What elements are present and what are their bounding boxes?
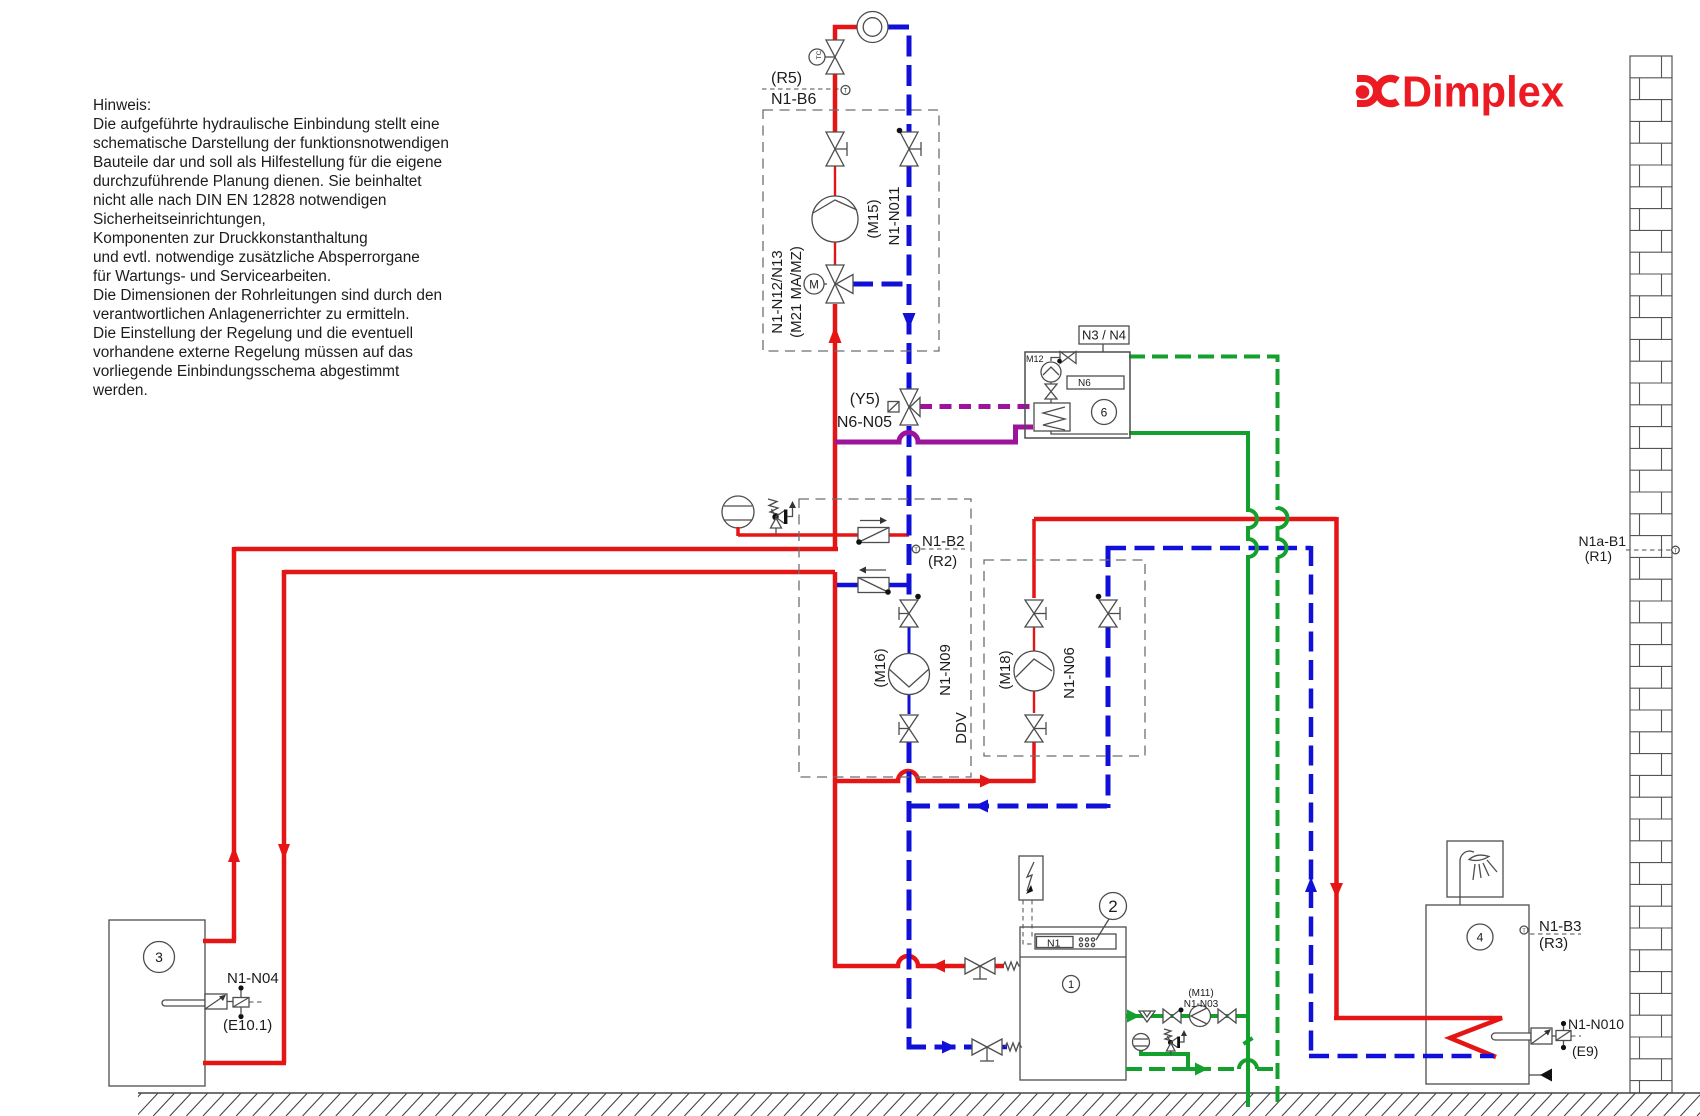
- wire red M18 pump-valve thin: [1033, 690, 1035, 713]
- svg-text:(R2): (R2): [928, 553, 957, 570]
- wire blue top box valve to Y5 valve: [907, 166, 912, 389]
- wire purple solid riser to N6 heat exchanger with bridge: [835, 427, 1033, 442]
- arrow blue up x1311: [1305, 877, 1317, 892]
- safety valve brine: [1164, 1029, 1187, 1055]
- wire blue check stub left: [837, 583, 858, 588]
- control panel N1: [1035, 934, 1116, 949]
- shutoff valve blue at heat pump: [972, 1039, 1002, 1061]
- wire red vertical tank3 top x234: [232, 547, 237, 941]
- dirt filter green line: [1139, 1011, 1155, 1022]
- shutoff valve blue top box: [897, 128, 921, 166]
- svg-text:6: 6: [1101, 406, 1108, 420]
- svg-text:DDV: DDV: [953, 712, 970, 744]
- wire blue thin pump-valve M16: [908, 693, 911, 714]
- svg-text:(M15): (M15): [865, 199, 882, 238]
- svg-text:Dimplex: Dimplex: [1402, 68, 1564, 117]
- svg-text:Die aufgeführte hydraulische E: Die aufgeführte hydraulische Einbindung …: [93, 116, 440, 133]
- wire green solid T stub on return: [1180, 1067, 1196, 1071]
- wire red main riser lower (835, 572-966): [833, 572, 838, 968]
- heat exchanger N6: [1034, 403, 1070, 431]
- shutoff valve above pump M18: [1025, 600, 1046, 627]
- valve in N6 box: [1060, 352, 1076, 364]
- shutoff valve below pump M18: [1025, 715, 1046, 742]
- svg-text:N1-N04: N1-N04: [227, 970, 279, 987]
- wire red tank4 riser x1336: [1334, 517, 1339, 1018]
- wire red M18 valve-pump thin: [1033, 627, 1035, 652]
- dashed enclosure mixer group N1-N09: [799, 499, 971, 777]
- sensor T outdoor N1a-B1 (R1): [1579, 533, 1680, 564]
- junction patch blue riser: [907, 576, 912, 594]
- svg-text:(Y5): (Y5): [850, 391, 880, 408]
- shutoff valve green left: [1163, 1008, 1184, 1024]
- svg-text:(R5): (R5): [771, 70, 802, 87]
- svg-text:N1-N011: N1-N011: [886, 187, 903, 246]
- wire blue DDV branch vertical lower: [1106, 627, 1111, 808]
- svg-text:Hinweis:: Hinweis:: [93, 97, 151, 114]
- wire blue M21 bypass stub: [852, 282, 909, 287]
- safety valve top: [768, 499, 796, 535]
- arrow red down x284: [278, 844, 290, 860]
- wire red horizontal tank3 top to riser y549: [234, 547, 838, 552]
- svg-text:für Wartungs- und Servicearbei: für Wartungs- und Servicearbeiten.: [93, 268, 331, 285]
- sensor T N1-B3 (R3): [1520, 918, 1582, 952]
- electric heater E9 tank4: [1492, 1016, 1625, 1059]
- electric heater E10.1 tank3: [162, 970, 279, 1034]
- pump M16 N1-N09: [872, 644, 954, 696]
- wire red thin valve-pump top box: [834, 166, 836, 197]
- wire red stub into tank3 top: [203, 939, 236, 944]
- tick on green riser: [1244, 1038, 1253, 1044]
- mixing valve M21 N1-N12/N13: [769, 246, 853, 338]
- DHW tank 4 body: [1426, 905, 1529, 1084]
- wire blue DDV branch vertical upper: [1106, 546, 1111, 600]
- wire red M18 branch vertical upper: [1032, 519, 1036, 598]
- wire blue stub valve to spring y1047: [1001, 1045, 1007, 1050]
- svg-text:M: M: [809, 280, 819, 292]
- wire blue DHW return riser x1311: [1309, 546, 1314, 1056]
- svg-text:nicht alle nach DIN EN 12828 n: nicht alle nach DIN EN 12828 notwendigen: [93, 192, 386, 209]
- svg-text:(E10.1): (E10.1): [223, 1017, 272, 1034]
- wire red stub valve to spring y966: [995, 964, 1004, 969]
- svg-text:N1-N010: N1-N010: [1568, 1016, 1624, 1032]
- wire expansion vessel line y535: [738, 533, 858, 537]
- shutoff valve DDV blue branch: [1096, 594, 1120, 627]
- wire blue top circuit from consumer circle: [888, 27, 909, 133]
- arrow red left y966: [931, 960, 945, 973]
- thermostatic valve TC (R5): [809, 40, 844, 74]
- svg-text:2: 2: [1108, 897, 1117, 916]
- svg-text:N1-N12/N13: N1-N12/N13: [769, 250, 786, 333]
- svg-text:und evtl. notwendige zusätzlic: und evtl. notwendige zusätzliche Absperr…: [93, 249, 420, 266]
- note text Hinweis: [92, 97, 449, 399]
- svg-text:N1-B3: N1-B3: [1539, 918, 1582, 935]
- wire red TC valve to box: [833, 74, 838, 132]
- electric supply box: [1019, 856, 1043, 944]
- arrow red up riser inside top box: [829, 326, 842, 343]
- shutoff valve below pump M16: [899, 715, 918, 742]
- drain tank4: [1529, 1069, 1552, 1082]
- controller unit N6 box: [1025, 352, 1130, 439]
- shutoff valve red top box: [826, 132, 847, 166]
- consumer circle heating circuit: [857, 12, 888, 43]
- shutoff valve red at heat pump: [965, 958, 995, 979]
- wire red M18 branch vertical lower: [1032, 742, 1036, 783]
- shutoff valve above pump M16: [899, 594, 921, 627]
- svg-text:N3 / N4: N3 / N4: [1082, 328, 1126, 343]
- svg-text:(M18): (M18): [997, 650, 1014, 689]
- circle 6: [1092, 400, 1117, 425]
- svg-text:Bauteile dar und soll als Hilf: Bauteile dar und soll als Hilfestellung …: [93, 154, 442, 171]
- svg-text:N6-N05: N6-N05: [837, 414, 892, 431]
- arrow blue right y1047: [942, 1041, 956, 1054]
- svg-text:N6: N6: [1078, 378, 1091, 389]
- svg-text:(M16): (M16): [872, 648, 889, 687]
- controller N6 box body: [1025, 352, 1130, 438]
- label N6: [1067, 376, 1124, 389]
- svg-text:N1-N06: N1-N06: [1061, 647, 1078, 699]
- storage tank 3: [144, 942, 175, 973]
- arrow red right y781: [980, 775, 994, 788]
- Dimplex logo: [1356, 68, 1565, 117]
- wire red thin pump-M21 top box: [834, 241, 836, 265]
- wire red mixer bottom y781 riser to M18 branch with bridge: [835, 771, 1034, 781]
- arrow green right y1069: [1195, 1063, 1208, 1076]
- wire red stub into tank3 bottom: [203, 1061, 286, 1066]
- svg-text:vorliegende Einbindungsschema: vorliegende Einbindungsschema abgestimmt: [93, 363, 400, 380]
- svg-text:(R1): (R1): [1585, 548, 1612, 564]
- dashed enclosure DDV group: [984, 560, 1145, 756]
- svg-text:TC: TC: [816, 50, 823, 59]
- flex connector red heat pump: [1003, 962, 1020, 970]
- svg-text:vorhandene externe Regelung mü: vorhandene externe Regelung müssen auf d…: [93, 344, 413, 361]
- svg-text:1: 1: [1068, 979, 1074, 991]
- circle 1: [1063, 976, 1080, 993]
- svg-text:Komponenten zur Druckkonstanth: Komponenten zur Druckkonstanthaltung: [93, 230, 368, 247]
- svg-text:(M11): (M11): [1188, 988, 1213, 999]
- wire red main riser upper (835, 304-549): [833, 304, 838, 551]
- dashed enclosure top heating circuit group: [763, 110, 939, 351]
- DHW tank 4: [1467, 924, 1493, 950]
- pump M18 N1-N06: [997, 647, 1078, 699]
- svg-text:N1-B6: N1-B6: [771, 91, 816, 108]
- wire blue DDV return y806: [909, 804, 1108, 809]
- flex connector blue heat pump: [1005, 1043, 1022, 1051]
- wire red tank4 coil: [1334, 1018, 1502, 1057]
- sensor T N1-B2 (R2): [912, 533, 965, 570]
- brick wall: [1630, 56, 1672, 1093]
- pump M15 N1-N011: [812, 187, 903, 246]
- svg-text:M12: M12: [1026, 354, 1044, 364]
- wire green solid N6 to ground loop riser: [1129, 433, 1257, 1107]
- svg-text:Die Einstellung der Regelung u: Die Einstellung der Regelung und die eve…: [93, 325, 413, 342]
- wire red horizontal tank3 bottom to riser y572: [284, 570, 835, 575]
- ground hatch: [120, 1093, 1700, 1116]
- arrow blue down top box: [903, 313, 916, 329]
- svg-text:(M21 MA/MZ): (M21 MA/MZ): [788, 246, 805, 338]
- small valve below pump M12: [1045, 384, 1057, 399]
- wire green brine supply y1016: [1126, 1014, 1248, 1018]
- svg-text:N1: N1: [1047, 938, 1061, 950]
- arrow red up x234: [228, 846, 240, 862]
- sensor T N1-B6: [762, 70, 850, 108]
- arrow green right y1016: [1127, 1010, 1140, 1023]
- shower symbol: [1447, 841, 1503, 905]
- svg-text:(E9): (E9): [1572, 1043, 1598, 1059]
- check valve blue: [858, 567, 891, 595]
- wire blue DHW return horizontal y548: [1106, 546, 1311, 551]
- svg-text:N1-N09: N1-N09: [937, 644, 954, 696]
- svg-text:Sicherheitseinrichtungen,: Sicherheitseinrichtungen,: [93, 211, 266, 228]
- svg-text:N1-N03: N1-N03: [1184, 999, 1219, 1010]
- wire blue Y5 to check junction: [907, 426, 912, 600]
- wire blue return riser below M16: [909, 742, 972, 1047]
- wire green brine return dashed y1069: [1126, 1067, 1278, 1071]
- wire red vertical tank3 bottom x284: [282, 570, 287, 1063]
- wire red heat pump supply y966 with bridge over blue: [833, 956, 965, 966]
- diverting valve Y5 N6-N05: [837, 389, 920, 431]
- svg-text:N1-B2: N1-B2: [922, 533, 965, 550]
- wire green dashed N6 to ground loop riser: [1129, 357, 1278, 511]
- shutoff valve green right: [1218, 1009, 1236, 1023]
- arrow red down tank4 riser: [1330, 883, 1343, 898]
- svg-text:N1a-B1: N1a-B1: [1579, 533, 1627, 549]
- svg-text:4: 4: [1477, 931, 1484, 945]
- wire red top M18 branch to tank4 riser y519: [1034, 517, 1337, 522]
- pump M11 N1-N03: [1184, 988, 1219, 1027]
- wire blue thin valve-pump M16: [908, 627, 911, 655]
- svg-text:schematische Darstellung der f: schematische Darstellung der funktionsno…: [93, 135, 449, 152]
- check valve red (overflow): [856, 517, 889, 545]
- wire green vessel/safety sub-circuit: [1141, 1049, 1188, 1070]
- svg-text:werden.: werden.: [92, 382, 148, 399]
- wire red check valve to blue riser y535: [889, 533, 909, 537]
- wire purple dashed Y5 to N6 heat exchanger: [920, 404, 1033, 409]
- wire blue DHW return into tank4 y1056: [1309, 1054, 1494, 1059]
- callout circle 2: [1096, 893, 1127, 941]
- arrow blue left y806: [974, 800, 988, 813]
- svg-text:durchzuführende Planung dienen: durchzuführende Planung dienen. Sie bein…: [93, 173, 422, 190]
- wire blue check stub right: [889, 583, 911, 588]
- svg-text:verantwortlichen Anlagenerrich: verantwortlichen Anlagenerrichter zu erm…: [93, 306, 410, 323]
- svg-text:Die Dimensionen der Rohrleitun: Die Dimensionen der Rohrleitungen sind d…: [93, 287, 442, 304]
- small expansion vessel brine: [1133, 1034, 1150, 1051]
- storage tank 3 body: [109, 920, 205, 1086]
- heat pump unit 1: [1020, 934, 1126, 993]
- heat pump unit body: [1020, 927, 1126, 1080]
- pump M12: [1041, 362, 1061, 382]
- wire red top circuit from consumer circle: [835, 27, 858, 40]
- label box N3 / N4: [1079, 326, 1129, 352]
- svg-text:T: T: [844, 89, 848, 95]
- svg-text:(R3): (R3): [1539, 935, 1568, 952]
- expansion vessel: [722, 496, 754, 536]
- svg-text:3: 3: [155, 949, 163, 965]
